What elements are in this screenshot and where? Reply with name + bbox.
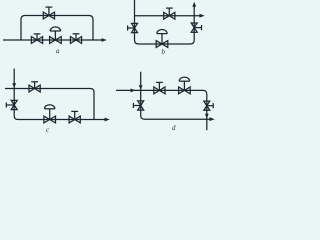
scheme c: inlet flow arrow	[12, 83, 16, 88]
scheme a: main pipe	[3, 39, 102, 41]
scheme c: inlet riser and bottom pipe	[14, 69, 105, 120]
scheme c: bypass pipe	[5, 89, 94, 120]
scheme a: bypass gate valve	[43, 7, 54, 19]
scheme d: control valve	[179, 77, 191, 94]
scheme c: right block valve	[69, 111, 80, 123]
scheme d: upper stub and bypass U loop	[141, 72, 210, 119]
svg-text:d: d	[172, 124, 176, 132]
scheme c: bypass gate valve	[29, 82, 40, 92]
scheme d: inlet pipe and top run	[116, 90, 207, 130]
scheme b: label b	[162, 48, 166, 56]
scheme a: right block valve V2	[70, 34, 81, 44]
svg-text:a: a	[56, 47, 60, 55]
scheme b: bypass right arrow	[200, 14, 205, 18]
scheme c: label c	[46, 126, 50, 134]
scheme c: control valve	[44, 105, 56, 123]
scheme c: left block valve	[6, 100, 17, 109]
scheme d: label d	[172, 124, 176, 132]
scheme d: outlet down arrow	[205, 114, 209, 119]
svg-text:c: c	[46, 126, 50, 134]
scheme b: outlet up arrow	[192, 2, 196, 7]
scheme b: inlet pipe and U loop	[135, 0, 195, 44]
scheme a: bypass pipe	[21, 16, 93, 41]
scheme a: control valve	[50, 27, 62, 43]
scheme d: left block valve	[133, 101, 143, 110]
svg-text:b: b	[162, 48, 166, 56]
scheme a: outlet arrow	[102, 38, 107, 42]
scheme d: stub flow arrow	[139, 85, 143, 90]
scheme b: right block valve	[191, 23, 201, 32]
scheme b: control valve	[156, 29, 168, 47]
scheme b: left block valve	[128, 23, 138, 32]
scheme d: bypass right arrow	[210, 117, 215, 121]
scheme d: right block valve	[204, 101, 213, 110]
scheme b: bypass gate valve	[164, 8, 175, 19]
scheme a: label a	[56, 47, 60, 55]
scheme c: outlet arrow	[105, 118, 110, 122]
scheme a: left block valve V1	[31, 34, 42, 44]
scheme d: gate valve	[154, 82, 165, 93]
scheme d: inlet flow arrow	[131, 89, 136, 93]
scheme b: bypass pipe	[135, 15, 200, 17]
